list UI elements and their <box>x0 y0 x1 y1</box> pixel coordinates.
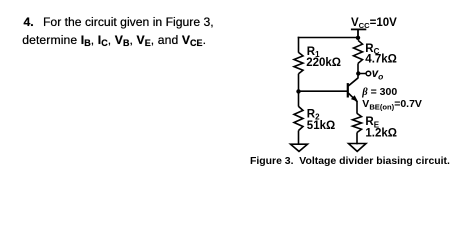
wire R1 to base node <box>298 74 300 107</box>
svg-text:1.2kΩ: 1.2kΩ <box>365 127 397 139</box>
svg-text:vo: vo <box>372 68 384 82</box>
wire R2 to ground <box>298 131 300 146</box>
ground (R2) <box>291 144 308 151</box>
wire top rail <box>298 37 358 39</box>
resistor RE <box>353 113 362 132</box>
resistor R1 <box>294 52 303 73</box>
problem statement text line 1 <box>24 13 214 31</box>
resistor R2 <box>294 106 303 130</box>
wire output tap <box>358 73 366 75</box>
svg-text:VCC=10V: VCC=10V <box>351 17 397 30</box>
node collector junction <box>356 71 360 75</box>
wire left branch upper <box>298 37 300 53</box>
transistor Q1 <box>348 78 358 102</box>
svg-text:4.7kΩ: 4.7kΩ <box>365 54 397 66</box>
wire RC to collector <box>357 63 359 78</box>
svg-text:51kΩ: 51kΩ <box>307 120 335 132</box>
svg-text:220kΩ: 220kΩ <box>306 57 341 69</box>
node Vcc junction <box>356 36 360 40</box>
ground (RE) <box>349 144 367 152</box>
wire RE to ground <box>356 133 358 145</box>
terminal vo circle <box>366 71 371 76</box>
transistor emitter arrow <box>351 95 358 101</box>
wire emitter to RE <box>356 101 358 113</box>
problem statement text line 2 <box>22 31 206 50</box>
node base junction <box>296 89 300 93</box>
Vcc supply bar <box>351 29 366 37</box>
wire base <box>299 90 348 92</box>
svg-text:Figure 3. Voltage divider bia: Figure 3. Voltage divider biasing circui… <box>250 156 450 167</box>
svg-text:β = 300: β = 300 <box>361 86 397 98</box>
svg-text:VBE(on)=0.7V: VBE(on)=0.7V <box>362 98 422 111</box>
resistor RC <box>354 40 363 63</box>
